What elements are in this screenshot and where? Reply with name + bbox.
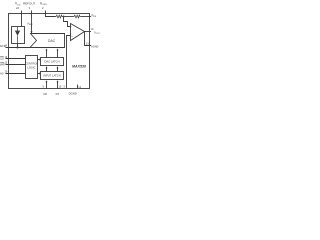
svg-text:2: 2 bbox=[42, 6, 44, 10]
wire input latch to DAC latch arrow 2 bbox=[57, 67, 59, 71]
node reference junction bbox=[17, 47, 19, 49]
node VREF arrowhead bbox=[31, 31, 33, 34]
wire control to DAC latch arrow bbox=[38, 59, 40, 61]
pin AGND stub bottom bbox=[77, 85, 79, 89]
svg-text:CONTROL: CONTROL bbox=[25, 62, 38, 66]
reference box bbox=[12, 27, 25, 44]
svg-text:REFIN: REFIN bbox=[0, 44, 6, 48]
svg-text:CS: CS bbox=[0, 57, 4, 61]
resistor R1 bbox=[56, 15, 63, 18]
resistor R2 bbox=[74, 15, 81, 18]
svg-text:MAX530: MAX530 bbox=[72, 65, 86, 69]
svg-text:5: 5 bbox=[43, 85, 45, 89]
INPUT latch box bbox=[41, 72, 64, 80]
wire DAC latch to DAC arrow 2 bbox=[57, 50, 59, 58]
svg-text:14: 14 bbox=[91, 27, 94, 31]
svg-text:A0: A0 bbox=[0, 71, 4, 75]
svg-text:RFB: RFB bbox=[92, 14, 97, 19]
wire output branch to AGND-side pin bbox=[85, 32, 92, 46]
pin VDD stub bbox=[21, 11, 23, 27]
svg-text:3: 3 bbox=[29, 6, 31, 10]
wire D7 pin to input latch arrow bbox=[57, 81, 59, 88]
pin REFOUT stub bbox=[31, 11, 33, 34]
svg-text:VOUT: VOUT bbox=[94, 31, 100, 36]
wire op-amp output to VOUT pin bbox=[85, 31, 92, 33]
wire R2 to RFB pin bbox=[80, 16, 91, 18]
svg-text:INPUT LATCH: INPUT LATCH bbox=[43, 74, 60, 78]
node feedback junction bbox=[63, 16, 65, 18]
wire LDAC pin bbox=[6, 73, 26, 75]
svg-text:3: 3 bbox=[63, 85, 65, 89]
svg-text:REFOUT: REFOUT bbox=[23, 1, 36, 5]
svg-text:+: + bbox=[71, 35, 73, 38]
wire WR pin bbox=[6, 64, 26, 66]
svg-text:LOGIC: LOGIC bbox=[27, 66, 35, 70]
op-amp A1 bbox=[71, 24, 85, 41]
wire feedback to inverting input bbox=[64, 17, 71, 27]
zener diode D1 bbox=[17, 27, 19, 32]
wire noninverting input bbox=[67, 36, 71, 89]
label CS overline bbox=[0, 56, 3, 58]
svg-text:DGND: DGND bbox=[69, 92, 77, 96]
svg-text:AGND: AGND bbox=[91, 45, 99, 49]
svg-text:D0: D0 bbox=[44, 92, 48, 96]
wire CS pin bbox=[6, 58, 26, 60]
svg-text:-: - bbox=[71, 26, 72, 29]
pin ROFS stub bbox=[46, 11, 56, 17]
svg-text:15: 15 bbox=[58, 85, 61, 89]
wire reference output bbox=[17, 44, 19, 48]
wire DAC latch to DAC arrow 1 bbox=[46, 50, 48, 58]
svg-text:DAC LATCH: DAC LATCH bbox=[44, 60, 59, 64]
label WR overline bbox=[0, 61, 4, 63]
wire REFIN pin to DAC bbox=[6, 47, 31, 49]
svg-text:DAC: DAC bbox=[48, 39, 56, 43]
svg-text:D7: D7 bbox=[56, 92, 60, 96]
wire control to INPUT latch arrow bbox=[38, 73, 40, 75]
wire R1 to junction bbox=[62, 16, 73, 18]
svg-text:13: 13 bbox=[86, 42, 89, 46]
wire input latch to DAC latch arrow 1 bbox=[46, 67, 48, 71]
wire D0 pin to input latch arrow bbox=[46, 81, 48, 88]
DAC U1 bbox=[30, 34, 65, 48]
svg-text:VREF: VREF bbox=[27, 22, 34, 27]
DAC latch box bbox=[41, 58, 64, 66]
chip border bbox=[9, 14, 90, 89]
control logic box bbox=[26, 56, 38, 79]
svg-text:22: 22 bbox=[16, 6, 20, 10]
